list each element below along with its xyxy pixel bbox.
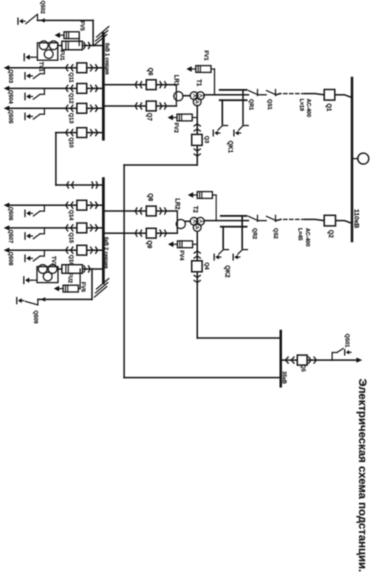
drawout contacts below breaker Q11 <box>66 65 73 71</box>
voltage transformer TV2 <box>37 267 58 283</box>
svg-text:QR1: QR1 <box>248 99 254 110</box>
wire Q2 to line W2 <box>305 219 324 220</box>
svg-text:FV6: FV6 <box>80 282 86 292</box>
svg-text:Q502: Q502 <box>39 1 45 14</box>
wire tertiary T1 to 35kV bus <box>124 164 197 166</box>
drawout contact TV1 chain <box>84 42 90 48</box>
wire QR2 to T2 <box>205 220 248 222</box>
drawout contacts above breaker Q16 <box>91 247 98 253</box>
wire 110kV bus to Q1 <box>335 95 352 98</box>
QK1 branch 1 <box>242 90 244 124</box>
drawout contacts above breaker Q15 <box>91 225 98 231</box>
wire bus1 to FU1/TV1 <box>58 45 104 47</box>
110kV bus <box>351 78 354 241</box>
exit arrow feeder Q15 <box>4 225 10 230</box>
drawout contacts below breaker Q13 <box>66 105 73 111</box>
exit arrow feeder Q11 <box>4 65 10 70</box>
drawout contacts right of breaker Q4 <box>194 275 200 282</box>
svg-text:FV1: FV1 <box>202 50 208 60</box>
wire bus2 to FU2/TV2 <box>58 268 103 270</box>
drawout contacts below breaker Q7 <box>135 103 141 109</box>
svg-text:Q6: Q6 <box>147 68 153 77</box>
svg-text:Q509: Q509 <box>32 310 38 323</box>
svg-text:Q14: Q14 <box>68 210 74 221</box>
breaker Q1 <box>324 90 335 101</box>
svg-text:FU2: FU2 <box>67 273 73 283</box>
svg-text:FU1: FU1 <box>59 50 65 60</box>
line exit Q509 <box>91 269 93 299</box>
svg-text:Q15: Q15 <box>68 233 74 244</box>
breaker Q3 <box>192 134 202 145</box>
breaker Q6 <box>146 80 156 90</box>
wire LR1 to bus section 1 via Q7 <box>103 105 176 107</box>
svg-text:Q503: Q503 <box>7 69 13 83</box>
drawout contacts above breaker Q12 <box>91 85 98 91</box>
breaker Q5 <box>297 355 307 365</box>
svg-text:Q506: Q506 <box>7 207 13 221</box>
transformer T1 <box>196 92 204 100</box>
earthing switch Q506 <box>43 205 45 211</box>
separator QR1 <box>248 91 258 95</box>
earthing switch Q503 <box>43 68 45 74</box>
wire T2 to reactor LR2 <box>185 220 190 222</box>
TV2 tank earth <box>32 279 37 281</box>
earthing switch Q504 <box>43 88 45 94</box>
svg-text:QK1: QK1 <box>226 141 232 154</box>
svg-text:Q4: Q4 <box>203 262 209 270</box>
arrester FV4 <box>193 243 198 245</box>
svg-text:QR2: QR2 <box>251 228 257 239</box>
svg-text:Q508: Q508 <box>7 252 13 266</box>
drawout contacts below breaker Q8 <box>135 208 141 214</box>
QK2 branch 1 <box>241 216 243 248</box>
svg-text:Q16: Q16 <box>68 255 74 266</box>
drawout contacts above Q5 <box>309 357 317 363</box>
drawout contacts above breaker Q14 <box>91 202 98 208</box>
bus tie breaker Q10 drop <box>56 132 104 134</box>
svg-text:Q11: Q11 <box>68 72 74 82</box>
svg-text:QS01: QS01 <box>344 334 350 348</box>
svg-text:AC-400: AC-400 <box>304 228 310 247</box>
breaker Q9 <box>146 228 156 238</box>
drawout contacts below breaker Q6 <box>135 82 141 88</box>
breaker Q10 <box>77 128 87 138</box>
svg-text:T2: T2 <box>192 206 198 214</box>
svg-text:L=19: L=19 <box>298 99 304 111</box>
earthing switch Q505 <box>43 108 45 114</box>
wire feeder Q12 <box>10 87 104 89</box>
overhead line AC-400 L=19 (dashed) <box>280 93 305 95</box>
svg-text:Q504: Q504 <box>7 90 13 105</box>
drawout contacts above breaker Q8 <box>160 208 166 214</box>
breaker Q14 <box>77 200 87 210</box>
svg-text:Электрическая схема подстанции: Электрическая схема подстанции. <box>356 379 368 572</box>
line exit arrow 35kV <box>356 358 362 363</box>
svg-text:FV4: FV4 <box>178 250 184 261</box>
drawout contact TV2 chain <box>84 266 90 272</box>
line exit Q502 <box>92 20 94 45</box>
svg-text:QS1: QS1 <box>266 99 272 110</box>
wire QR1 to T1 <box>204 94 248 96</box>
drawout contacts below breaker Q16 <box>66 247 73 253</box>
svg-text:FV5: FV5 <box>79 21 85 31</box>
bus tie wire across <box>55 133 57 185</box>
breaker Q12 <box>77 84 87 94</box>
wire 110kV bus to Q2 <box>336 221 353 224</box>
bus 6kV section 2 <box>102 179 105 283</box>
svg-text:AC-400: AC-400 <box>305 99 311 118</box>
bus tie contacts near section 2 <box>92 182 98 188</box>
bus tie contacts near corner <box>67 182 74 188</box>
svg-text:Q10: Q10 <box>68 137 74 148</box>
wire feeder Q14 <box>10 204 104 206</box>
drawout contacts below breaker Q9 <box>135 230 141 236</box>
wire Q1 to line W1 <box>305 94 324 95</box>
drawout contacts left of breaker Q3 <box>194 124 200 131</box>
svg-text:FV2: FV2 <box>172 123 178 133</box>
breaker Q2 <box>324 215 335 226</box>
drawout contacts above breaker Q6 <box>160 82 166 88</box>
drawout contacts right of breaker Q3 <box>194 149 200 156</box>
wire T1 tertiary <box>196 106 198 165</box>
overhead line AC-400 L=45 (dashed) <box>281 218 305 220</box>
drawout contacts left of breaker Q4 <box>194 251 200 258</box>
TV1 tank earth <box>32 56 37 58</box>
svg-text:110кВ: 110кВ <box>352 209 359 228</box>
svg-text:QK2: QK2 <box>223 265 229 278</box>
svg-text:LR2: LR2 <box>173 198 179 210</box>
disconnector QS2 <box>266 216 276 220</box>
drawout contacts below Q5 <box>285 357 294 363</box>
wire feeder Q16 <box>10 249 104 251</box>
drawout contacts below breaker Q14 <box>66 202 73 208</box>
fuse FU2 <box>62 265 83 274</box>
bus 2 break hatch <box>95 279 109 298</box>
svg-text:Q5: Q5 <box>300 365 306 372</box>
arrester FV1 <box>214 69 216 95</box>
svg-text:6кВ 1 секция: 6кВ 1 секция <box>104 43 110 75</box>
wire feeder Q15 <box>10 227 104 229</box>
arrester FV2 <box>192 117 197 119</box>
QK1 branch 2 <box>221 100 223 124</box>
svg-text:QS2: QS2 <box>272 228 278 239</box>
wire T2 tertiary <box>196 233 198 338</box>
exit arrow feeder Q14 <box>4 203 10 208</box>
wire feeder Q11 <box>10 67 104 69</box>
voltage transformer TV1 <box>37 43 57 60</box>
svg-text:TV2: TV2 <box>50 256 56 266</box>
breaker Q13 <box>77 103 87 113</box>
drawout contacts above breaker Q11 <box>91 65 98 71</box>
short-circuiter assembly bars QK2 <box>221 215 247 217</box>
breaker Q16 <box>77 245 87 255</box>
svg-text:Q12: Q12 <box>68 93 74 104</box>
short-circuiter assembly bars QK1 <box>220 89 247 91</box>
breaker Q11 <box>77 63 87 73</box>
exit arrow feeder Q12 <box>4 86 10 91</box>
earthing switch Q507 <box>43 228 45 234</box>
svg-text:Q505: Q505 <box>7 110 13 124</box>
drawout contacts above breaker Q7 <box>160 103 166 109</box>
drawout contacts below breaker Q15 <box>66 225 73 231</box>
separator QR2 <box>248 216 258 220</box>
bus 6kV section 1 <box>102 34 105 140</box>
arrester FV3 <box>215 195 217 221</box>
breaker Q4 <box>192 261 202 272</box>
wire LR2 to bus section 2 via Q9 <box>103 232 177 234</box>
svg-text:Q13: Q13 <box>68 113 74 124</box>
QK2 branch 2 <box>222 227 224 248</box>
wire LR2 to bus section 2 via Q8 <box>103 210 177 212</box>
wire dashed to QS2 <box>276 219 281 220</box>
breaker Q7 <box>146 101 156 111</box>
wire tertiary T2 to 35kV bus <box>197 337 280 339</box>
breaker Q8 <box>146 206 156 216</box>
drawout contacts below breaker Q12 <box>66 85 73 91</box>
svg-text:6кВ 2 секция: 6кВ 2 секция <box>102 237 108 269</box>
exit arrow feeder Q16 <box>4 248 10 253</box>
disconnector QS1 <box>266 91 276 95</box>
svg-text:Q7: Q7 <box>146 113 152 122</box>
svg-text:Q3: Q3 <box>203 136 209 143</box>
split reactor LR2 <box>176 219 185 228</box>
earthing switch Q508 <box>43 250 45 256</box>
drawout contacts above breaker Q9 <box>160 230 166 236</box>
split reactor LR1 <box>174 92 183 101</box>
svg-text:35кВ: 35кВ <box>281 371 287 384</box>
drawout contacts above breaker Q13 <box>91 105 98 111</box>
wire T1 to reactor LR1 <box>183 95 190 97</box>
disconnector QS01 with earth <box>331 353 333 361</box>
breaker Q15 <box>77 223 87 233</box>
bus 1 break hatch <box>95 27 109 46</box>
svg-text:L=45: L=45 <box>296 228 302 240</box>
svg-text:T1: T1 <box>195 79 201 87</box>
bus 35kV <box>280 331 283 386</box>
wire LR1 to bus section 1 via Q6 <box>103 84 176 86</box>
svg-text:Q9: Q9 <box>146 240 152 249</box>
fuse FU1 <box>62 41 83 50</box>
system source circle <box>358 153 369 164</box>
svg-text:TV1: TV1 <box>37 62 43 72</box>
wire dashed to QS1 <box>276 94 280 95</box>
arrester FV5 <box>78 35 80 45</box>
wire 35kV bus to Q5 <box>281 359 356 361</box>
arrester FV6 <box>79 269 81 289</box>
transformer T2 <box>196 217 204 225</box>
svg-text:Q8: Q8 <box>147 193 153 202</box>
svg-text:Q507: Q507 <box>7 230 13 244</box>
svg-text:Q1: Q1 <box>325 103 331 112</box>
svg-text:Q2: Q2 <box>327 230 333 239</box>
wire feeder Q13 <box>10 107 104 109</box>
exit arrow feeder Q13 <box>4 106 10 111</box>
